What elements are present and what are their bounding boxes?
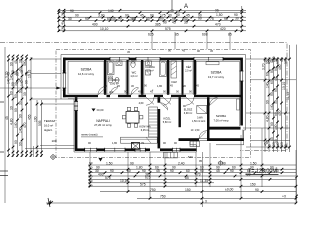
svg-text:30: 30 <box>235 17 239 21</box>
svg-text:60: 60 <box>14 94 18 98</box>
porch dimension numbers <box>188 155 203 163</box>
svg-text:90: 90 <box>224 17 228 21</box>
svg-text:60: 60 <box>89 179 93 183</box>
svg-text:30: 30 <box>130 17 134 21</box>
svg-text:45: 45 <box>172 21 176 25</box>
svg-text:385: 385 <box>155 23 161 27</box>
svg-text:30: 30 <box>9 106 13 110</box>
hall storage closet <box>197 106 207 120</box>
svg-text:1,0 m²: 1,0 m² <box>130 74 137 78</box>
interior wall kitchen/living <box>158 97 161 148</box>
svg-text:60: 60 <box>127 169 131 173</box>
chimney block in bottom wall <box>132 143 140 150</box>
svg-text:1,50: 1,50 <box>216 13 223 17</box>
bathroom tub <box>108 61 115 75</box>
door kamra (swings south) <box>163 97 171 105</box>
svg-text:45: 45 <box>284 144 288 148</box>
svg-text:merev (mosó): merev (mosó) <box>81 133 98 137</box>
svg-text:6,45 m²: 6,45 m² <box>141 129 150 132</box>
door wc (swings into room) <box>131 87 139 95</box>
right dimension numbers (rotated) <box>261 56 290 148</box>
back steps below kitchen door <box>164 152 178 158</box>
interior wall bath/wc <box>127 60 129 95</box>
bath2 sink <box>146 61 152 66</box>
svg-text:TERASZ: TERASZ <box>44 119 55 123</box>
building inner face outline (plaster line) <box>68 61 240 126</box>
interior wall bath2/kamra <box>167 60 169 95</box>
svg-text:10,10: 10,10 <box>282 82 286 90</box>
svg-text:30: 30 <box>18 59 22 63</box>
svg-text:90: 90 <box>18 89 22 93</box>
svg-text:90: 90 <box>265 100 269 104</box>
svg-text:2,0 m²: 2,0 m² <box>185 70 192 73</box>
svg-text:750: 750 <box>160 195 166 199</box>
west window ticks <box>74 102 78 111</box>
svg-text:150: 150 <box>185 188 191 192</box>
svg-text:90: 90 <box>163 21 167 25</box>
svg-text:45: 45 <box>127 50 130 54</box>
door kitchen (on kitchen wall) <box>160 103 168 111</box>
svg-text:575: 575 <box>105 176 111 180</box>
svg-text:75: 75 <box>210 17 214 21</box>
exterior wall right <box>240 58 243 126</box>
svg-text:16,0 m²: 16,0 m² <box>44 124 53 128</box>
svg-text:90: 90 <box>89 161 93 165</box>
svg-text:540: 540 <box>188 155 193 159</box>
svg-text:90: 90 <box>14 108 18 112</box>
svg-text:4,60: 4,60 <box>139 102 144 105</box>
svg-text:140: 140 <box>274 124 278 130</box>
svg-text:60: 60 <box>9 91 13 95</box>
svg-text:90: 90 <box>118 17 122 21</box>
exterior wall left lower (terrace side) <box>75 97 78 148</box>
svg-text:WC: WC <box>132 71 137 75</box>
svg-text:30: 30 <box>284 60 288 64</box>
svg-text:1,50 m² lomt: 1,50 m² lomt <box>192 120 206 123</box>
svg-text:13,7 m² szny: 13,7 m² szny <box>208 75 225 79</box>
window dim texts above bottom wall <box>88 141 177 145</box>
svg-text:45: 45 <box>156 169 160 173</box>
svg-text:45: 45 <box>182 49 185 53</box>
svg-text:45: 45 <box>61 21 65 25</box>
svg-text:4,80: 4,80 <box>265 115 269 122</box>
svg-text:90: 90 <box>168 49 171 53</box>
svg-text:90: 90 <box>197 49 200 53</box>
svg-text:3,90 m²: 3,90 m² <box>184 112 193 115</box>
bottom dimension numbers <box>89 161 287 204</box>
svg-text:90: 90 <box>70 9 74 13</box>
svg-text:T= 128,00M: T= 128,00M <box>248 168 277 174</box>
survey symbol circle-cross <box>50 154 56 160</box>
svg-text:SZOBA: SZOBA <box>216 114 226 118</box>
left dimension lines <box>7 55 43 157</box>
svg-text:30: 30 <box>18 101 22 105</box>
svg-text:95: 95 <box>199 159 203 163</box>
windows on bottom wall <box>85 148 180 152</box>
svg-text:KONYHA: KONYHA <box>139 125 151 129</box>
svg-text:45: 45 <box>216 169 220 173</box>
svg-text:1,5 m²: 1,5 m² <box>146 69 153 73</box>
svg-text:490: 490 <box>92 23 98 27</box>
svg-text:100: 100 <box>51 139 56 143</box>
svg-text:3,90: 3,90 <box>98 14 105 18</box>
svg-text:60: 60 <box>265 72 269 76</box>
door room1 (swings into room) <box>98 86 107 95</box>
front entry door <box>199 131 207 139</box>
svg-text:90: 90 <box>265 60 269 64</box>
right dimension lines <box>264 45 298 203</box>
svg-text:tégla b.: tégla b. <box>44 128 53 132</box>
interior level marker <box>92 109 96 112</box>
svg-text:505: 505 <box>38 120 42 126</box>
svg-text:90: 90 <box>125 13 129 17</box>
main interior wall horizontal (rooms/living) <box>63 95 241 99</box>
svg-text:30: 30 <box>274 58 278 62</box>
svg-text:490: 490 <box>98 172 104 176</box>
roof overhang outline A (dash-dot) <box>56 50 251 158</box>
SE room bottom wall <box>207 127 241 130</box>
window on left wall <box>62 70 66 92</box>
svg-text:90: 90 <box>18 67 22 71</box>
interior wall hall/SE szoba <box>207 97 210 141</box>
door bath2 (swings south) <box>146 97 154 105</box>
svg-text:575: 575 <box>165 27 171 31</box>
svg-text:240: 240 <box>109 90 114 94</box>
svg-text:12,6 m² szny: 12,6 m² szny <box>78 72 95 76</box>
top dimension lines <box>58 6 247 32</box>
door NE szoba (swings south) <box>186 97 194 105</box>
svg-text:1,50: 1,50 <box>106 161 113 165</box>
svg-text:90: 90 <box>25 80 29 84</box>
svg-text:455: 455 <box>27 114 31 120</box>
svg-text:45: 45 <box>18 78 22 82</box>
svg-text:85: 85 <box>185 176 189 180</box>
svg-text:SZOBA: SZOBA <box>81 68 93 72</box>
area text T=128,00 M2 <box>246 167 279 175</box>
svg-text:60: 60 <box>89 174 93 178</box>
svg-text:7,00 m² emp: 7,00 m² emp <box>213 119 229 123</box>
svg-text:30: 30 <box>274 100 278 104</box>
top dimension numbers <box>68 9 239 37</box>
svg-text:SZOBA: SZOBA <box>211 71 223 75</box>
svg-text:575: 575 <box>140 183 146 187</box>
svg-text:750: 750 <box>150 188 156 192</box>
svg-text:30: 30 <box>68 17 72 21</box>
svg-text:45: 45 <box>265 140 269 144</box>
svg-text:140: 140 <box>14 122 18 128</box>
svg-text:±0,00: ±0,00 <box>225 188 233 192</box>
svg-text:27,20 m² szny: 27,20 m² szny <box>94 123 112 127</box>
svg-text:45: 45 <box>274 77 278 81</box>
svg-text:10,10: 10,10 <box>27 70 31 78</box>
room inner face lines <box>69 61 197 94</box>
svg-text:45: 45 <box>140 13 144 17</box>
svg-text:FÜRDŐ: FÜRDŐ <box>110 77 121 82</box>
svg-text:45: 45 <box>5 116 9 120</box>
svg-text:1,50: 1,50 <box>195 129 200 132</box>
svg-text:90: 90 <box>85 17 89 21</box>
svg-text:4,80: 4,80 <box>9 118 13 125</box>
svg-text:90: 90 <box>14 71 18 75</box>
bath2 tub <box>160 61 167 77</box>
left dimension numbers (rotated) <box>5 59 42 146</box>
svg-text:30: 30 <box>61 12 65 16</box>
svg-text:11,35: 11,35 <box>200 179 208 183</box>
shelf/shower hatch in kamra <box>171 61 177 78</box>
exterior wall top <box>63 58 241 61</box>
svg-text:60: 60 <box>186 169 190 173</box>
interior wall kamra/kazan <box>182 60 184 95</box>
svg-text:90: 90 <box>198 17 202 21</box>
svg-text:45: 45 <box>89 170 93 174</box>
svg-text:140: 140 <box>108 9 114 13</box>
svg-text:490: 490 <box>23 60 27 66</box>
svg-text:1,80: 1,80 <box>157 84 163 88</box>
svg-text:45: 45 <box>14 60 18 64</box>
svg-text:90: 90 <box>146 17 150 21</box>
exterior wall left upper <box>63 58 66 98</box>
entry threshold <box>199 139 207 141</box>
top extension lines to building <box>152 32 230 49</box>
svg-text:5,60 m²: 5,60 m² <box>163 121 172 124</box>
door SE szoba (swings into hall) <box>210 98 218 106</box>
svg-text:90: 90 <box>14 140 18 144</box>
svg-text:±0,00: ±0,00 <box>97 108 104 112</box>
svg-text:45: 45 <box>210 49 213 53</box>
svg-text:90: 90 <box>230 169 234 173</box>
svg-text:30: 30 <box>14 82 18 86</box>
kitchen counter strip (L) <box>121 107 158 143</box>
svg-text:10,10: 10,10 <box>120 179 129 183</box>
svg-text:10,10: 10,10 <box>100 27 109 31</box>
wc fixture <box>131 61 135 68</box>
svg-text:140: 140 <box>265 82 269 88</box>
svg-text:11,35: 11,35 <box>286 92 290 100</box>
corridor dimension texts <box>104 84 199 109</box>
svg-text:60: 60 <box>107 17 111 21</box>
window dim texts above top wall <box>127 49 213 55</box>
bathroom wc+bidet <box>108 76 119 83</box>
room labels <box>44 65 229 143</box>
svg-text:140: 140 <box>270 104 274 110</box>
interior wall kitchen/hall <box>179 97 181 127</box>
svg-text:470: 470 <box>23 122 27 128</box>
windows on top wall <box>110 57 223 61</box>
svg-text:625: 625 <box>148 33 154 37</box>
svg-text:2: 2 <box>276 167 278 171</box>
svg-text:140: 140 <box>18 127 22 133</box>
svg-text:KÖZL: KÖZL <box>163 117 171 121</box>
svg-text:90: 90 <box>18 114 22 118</box>
svg-text:90: 90 <box>150 14 154 18</box>
bathroom sink <box>116 61 122 66</box>
svg-text:90: 90 <box>170 169 174 173</box>
svg-text:100: 100 <box>33 116 37 122</box>
door bath (swings into room) <box>110 87 118 95</box>
entry porch steps <box>190 141 200 146</box>
far-left edge marks <box>0 102 8 176</box>
right extension lines to building <box>243 59 296 147</box>
svg-text:90: 90 <box>75 13 79 17</box>
svg-text:1,80: 1,80 <box>112 141 118 145</box>
svg-text:2,40: 2,40 <box>178 161 185 165</box>
left extension lines to building <box>0 59 75 148</box>
svg-text:96: 96 <box>215 9 219 13</box>
svg-text:150: 150 <box>250 183 256 187</box>
SE step outline <box>190 130 246 145</box>
roof overhang outline B (dash-dot) <box>0 43 287 151</box>
svg-text:90: 90 <box>110 169 114 173</box>
left margin vertical line <box>4 47 6 203</box>
dining table with chairs <box>122 107 143 127</box>
bottom-left line end marks <box>47 198 53 207</box>
window on right wall <box>240 71 244 81</box>
svg-text:90: 90 <box>18 142 22 146</box>
svg-text:A: A <box>184 4 188 10</box>
svg-text:140: 140 <box>9 74 13 80</box>
svg-text:30: 30 <box>184 20 188 24</box>
svg-text:60: 60 <box>89 183 93 187</box>
svg-text:30: 30 <box>23 92 27 96</box>
svg-text:90: 90 <box>255 188 259 192</box>
svg-text:90: 90 <box>274 88 278 92</box>
svg-text:90: 90 <box>176 13 180 17</box>
svg-text:470: 470 <box>215 22 221 26</box>
interior wall wc/bath2 <box>141 60 143 95</box>
svg-text:90: 90 <box>9 62 13 66</box>
exterior wall bottom <box>75 148 197 151</box>
svg-text:90: 90 <box>130 161 134 165</box>
svg-text:45: 45 <box>112 17 116 21</box>
svg-text:85: 85 <box>175 33 179 37</box>
building outer face outline <box>61 55 246 153</box>
bottom extension lines from building <box>34 128 297 207</box>
section mark A at top <box>172 0 188 10</box>
radiators <box>206 62 240 110</box>
svg-text:45: 45 <box>274 139 278 143</box>
svg-text:420: 420 <box>220 27 226 31</box>
survey symbol near porch <box>218 160 223 165</box>
svg-text:490: 490 <box>278 64 282 70</box>
svg-text:KAMRA: KAMRA <box>145 65 155 69</box>
interior wall room1/bath <box>104 60 106 95</box>
porch south wall (hall+terrace) <box>179 138 244 141</box>
level marker triangle bottom <box>99 158 103 162</box>
svg-text:90: 90 <box>89 165 93 169</box>
bath2 machine <box>146 70 151 75</box>
svg-text:30: 30 <box>61 26 65 30</box>
bottom dimension lines <box>46 164 297 205</box>
interior wall halo/szoba2 <box>194 60 197 95</box>
